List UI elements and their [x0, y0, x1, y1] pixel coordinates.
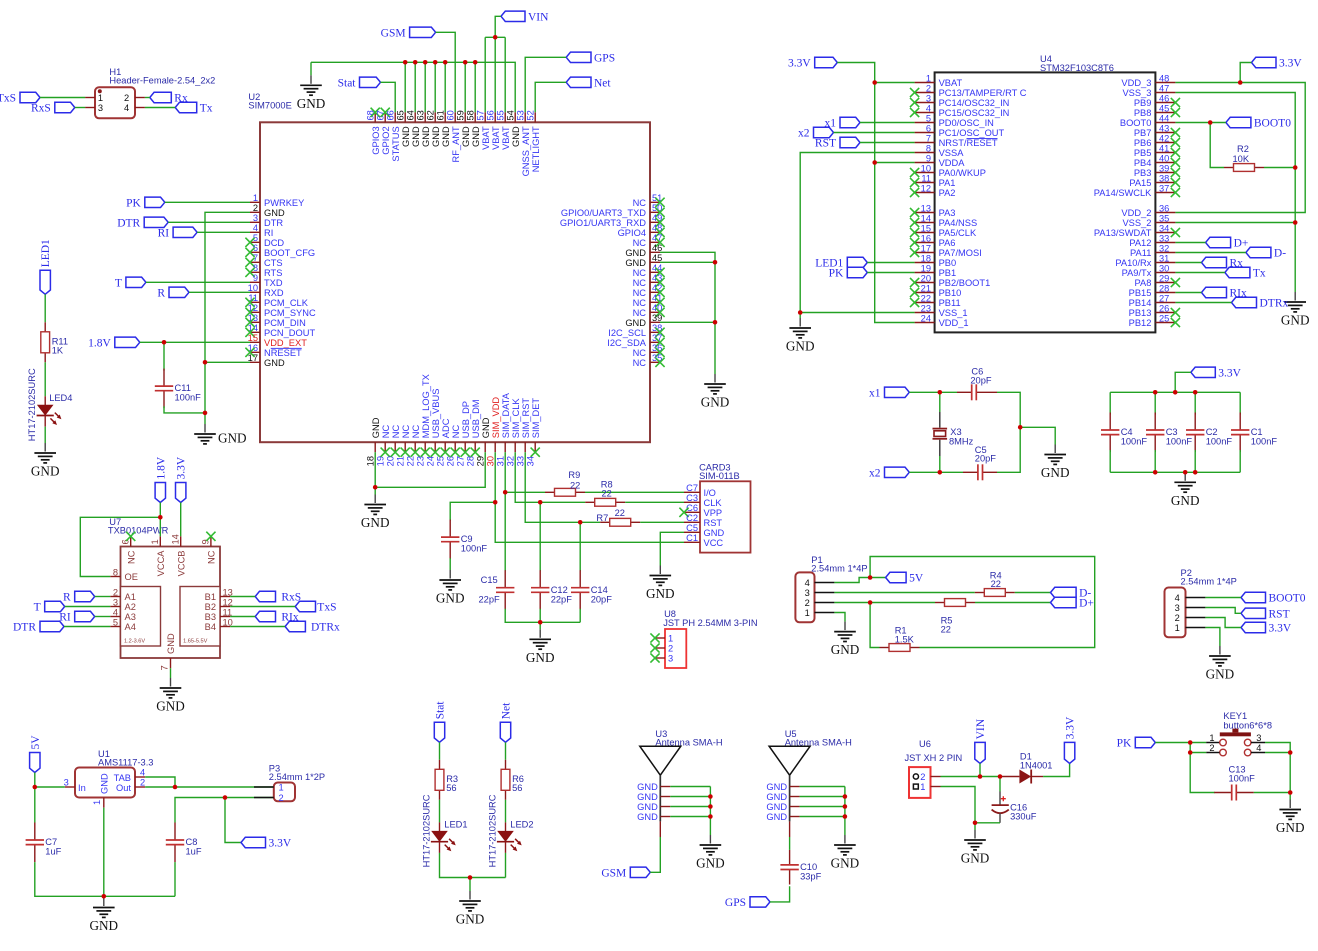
svg-text:D+: D+ — [1079, 598, 1094, 610]
U4 pin 41 PB5 — [1134, 143, 1180, 158]
net flag LED1 — [815, 257, 867, 269]
junction — [1153, 390, 1158, 395]
U4 pin 28 PB15 — [1129, 283, 1176, 298]
svg-text:VDD_2: VDD_2 — [1121, 208, 1151, 218]
wire — [1190, 743, 1215, 793]
svg-text:PA2: PA2 — [939, 188, 956, 198]
svg-text:RST: RST — [815, 138, 836, 150]
wire — [585, 491, 684, 493]
svg-text:LED4: LED4 — [49, 393, 72, 403]
net flag 3.3V — [1252, 57, 1303, 69]
wire — [44, 427, 46, 443]
U4 pin 21 PB10 — [910, 283, 961, 298]
U2 pin 36 NC — [633, 343, 665, 358]
capacitor C3 — [1146, 413, 1192, 453]
U4 pin 7 NRST/RESET — [915, 133, 998, 148]
wire — [230, 606, 295, 608]
svg-text:GND: GND — [90, 918, 119, 933]
svg-text:C1: C1 — [1251, 427, 1263, 437]
svg-text:2: 2 — [253, 203, 258, 213]
svg-text:SIM_DATA: SIM_DATA — [501, 392, 511, 438]
svg-text:SIM_DET: SIM_DET — [531, 398, 541, 439]
svg-text:PA11: PA11 — [1130, 248, 1151, 258]
svg-text:DTR: DTR — [264, 218, 283, 228]
junction — [463, 60, 468, 65]
svg-text:BOOT0: BOOT0 — [1269, 593, 1306, 605]
U2 pin 31 SIM_DATA — [496, 392, 511, 466]
svg-text:D-: D- — [1274, 248, 1286, 260]
U4 pin 15 PA5/CLK — [910, 223, 977, 238]
svg-text:GND: GND — [264, 208, 285, 218]
resistor R6 — [501, 760, 524, 800]
U2 pin 48 GPIO4 — [618, 223, 665, 238]
svg-text:3: 3 — [926, 93, 931, 103]
svg-text:22: 22 — [941, 624, 951, 634]
wire — [180, 503, 182, 537]
svg-text:RST: RST — [704, 518, 723, 528]
net flag T — [115, 277, 146, 289]
svg-text:PA0/WKUP: PA0/WKUP — [939, 168, 986, 178]
wire — [941, 776, 1001, 778]
wire — [164, 406, 205, 413]
net flag D- — [1051, 587, 1092, 599]
svg-text:PB4: PB4 — [1134, 158, 1152, 168]
junction — [538, 620, 543, 625]
svg-text:DCD: DCD — [264, 238, 284, 248]
svg-text:x1: x1 — [869, 387, 881, 399]
svg-text:21: 21 — [396, 456, 406, 466]
junction — [868, 575, 873, 580]
wire — [485, 36, 505, 38]
wire — [103, 808, 105, 897]
IC U1 AMS1117-3.3 body — [75, 749, 153, 798]
wire — [40, 97, 85, 99]
H1 pin 4 — [124, 103, 145, 113]
resistor R11 — [41, 322, 68, 362]
svg-text:GND: GND — [511, 126, 521, 147]
svg-text:GND: GND — [1281, 313, 1310, 328]
wire — [979, 763, 981, 776]
svg-text:1: 1 — [279, 783, 284, 793]
wire — [230, 616, 255, 618]
net flag RST — [1241, 608, 1290, 620]
wire — [844, 787, 846, 836]
junction — [973, 821, 978, 826]
wire — [800, 796, 845, 798]
svg-text:VCCA: VCCA — [156, 550, 166, 577]
svg-text:62: 62 — [426, 110, 436, 120]
svg-text:A3: A3 — [125, 612, 136, 622]
svg-text:22: 22 — [921, 293, 931, 303]
U4 pin 20 PB2/BOOT1 — [910, 273, 990, 288]
U2 pin 50 GPIO0/UART3_TXD — [561, 203, 665, 218]
wire — [1175, 262, 1201, 264]
junction — [433, 60, 438, 65]
svg-text:63: 63 — [416, 110, 426, 120]
wire — [625, 501, 684, 503]
svg-text:B1: B1 — [205, 592, 216, 602]
svg-text:28: 28 — [1159, 283, 1169, 293]
svg-text:PA14/SWCLK: PA14/SWCLK — [1094, 188, 1152, 198]
svg-text:GND: GND — [461, 126, 471, 147]
P2 pin 3 — [1175, 603, 1206, 613]
net flag 3.3V — [1191, 367, 1242, 379]
svg-text:2: 2 — [805, 598, 810, 608]
net flag PK — [829, 267, 868, 279]
junction — [158, 515, 163, 520]
svg-text:GND: GND — [156, 699, 185, 714]
P1 pin 1 — [805, 608, 835, 618]
svg-text:C2: C2 — [1206, 427, 1218, 437]
svg-text:PA9/Tx: PA9/Tx — [1122, 268, 1152, 278]
svg-text:VBAT: VBAT — [491, 126, 501, 150]
wire — [1190, 752, 1206, 754]
net flag DTR — [13, 621, 64, 633]
wire — [1210, 123, 1224, 168]
junction — [1293, 165, 1298, 170]
wire — [484, 37, 486, 112]
junction — [373, 485, 378, 490]
U2 pin 18 GND — [366, 417, 381, 466]
junction — [493, 500, 498, 505]
svg-text:OE: OE — [125, 572, 138, 582]
wire — [1110, 471, 1240, 473]
svg-text:PC13/TAMPER/RT C: PC13/TAMPER/RT C — [939, 88, 1027, 98]
wire — [834, 132, 915, 134]
U8 pin 3 — [650, 653, 673, 663]
svg-text:D+: D+ — [1234, 238, 1249, 250]
junction — [538, 500, 543, 505]
svg-text:C5: C5 — [686, 523, 698, 533]
resistor R9 — [545, 470, 585, 496]
wire — [444, 62, 446, 112]
svg-text:8: 8 — [926, 143, 931, 153]
U5 GND pin 2 — [766, 792, 799, 802]
svg-text:T: T — [115, 277, 122, 289]
capacitor C10 — [780, 850, 821, 885]
svg-text:DTR: DTR — [13, 622, 36, 634]
svg-text:3: 3 — [253, 213, 258, 223]
net flag DTRx — [285, 621, 340, 633]
U2 pin 53 GNSS_ANT — [516, 110, 531, 176]
wire — [999, 777, 1001, 792]
net flag 3.3V — [1241, 622, 1292, 634]
wire — [1265, 752, 1290, 754]
svg-text:GND: GND — [625, 248, 646, 258]
U4 pin 48 VDD_3 — [1121, 73, 1175, 88]
svg-text:1: 1 — [98, 93, 103, 103]
wire — [1175, 252, 1246, 254]
svg-text:R7: R7 — [596, 513, 608, 523]
U2 pin 64 GND — [406, 110, 421, 147]
svg-text:GND: GND — [646, 586, 675, 601]
svg-text:TxS: TxS — [0, 93, 16, 105]
svg-text:VSS_3: VSS_3 — [1122, 88, 1151, 98]
svg-text:3.3V: 3.3V — [1065, 716, 1077, 739]
ground (U2 pin18) — [361, 495, 390, 531]
U2 pin 28 USB_DM — [466, 399, 481, 466]
svg-text:GND: GND — [218, 431, 247, 446]
svg-text:20pF: 20pF — [970, 375, 992, 385]
ground (P2) — [1206, 646, 1235, 682]
svg-text:PCM_DIN: PCM_DIN — [264, 318, 306, 328]
junction — [413, 60, 418, 65]
svg-text:20: 20 — [386, 456, 396, 466]
junction — [708, 804, 713, 809]
svg-text:GND: GND — [637, 782, 658, 792]
net flag LED1 — [40, 239, 52, 294]
svg-text:GSM: GSM — [381, 27, 406, 39]
wire — [800, 312, 914, 314]
wire — [539, 622, 541, 629]
svg-text:PB3: PB3 — [1134, 168, 1152, 178]
wire — [159, 503, 161, 537]
U2 pin 2 GND — [250, 203, 285, 218]
svg-text:56: 56 — [512, 783, 522, 793]
U2 pin 47 NC — [633, 233, 665, 248]
U7 pin 5 A4 — [110, 617, 136, 632]
U7 pin 12 B2 — [205, 597, 233, 612]
svg-text:1.2-3.6V: 1.2-3.6V — [124, 639, 145, 645]
svg-text:PB9: PB9 — [1134, 98, 1152, 108]
svg-text:PA4/NSS: PA4/NSS — [939, 218, 978, 228]
junction — [938, 470, 943, 475]
U2 pin 51 NC — [633, 193, 665, 208]
wire — [168, 221, 250, 223]
svg-text:1: 1 — [1175, 623, 1180, 633]
svg-text:PB2/BOOT1: PB2/BOOT1 — [939, 278, 991, 288]
svg-text:59: 59 — [456, 110, 466, 120]
svg-text:PB11: PB11 — [939, 298, 961, 308]
net flag VIN — [501, 11, 549, 23]
svg-text:PB0: PB0 — [939, 258, 957, 268]
connector U8 body — [663, 609, 757, 668]
wire — [939, 392, 941, 412]
U2 pin 20 NC — [386, 424, 401, 466]
net flag RST — [815, 137, 860, 149]
svg-text:5V: 5V — [30, 735, 42, 750]
U7 pin 7 GND — [160, 633, 177, 670]
svg-text:22pF: 22pF — [478, 594, 500, 604]
net flag 5V — [886, 572, 924, 584]
svg-text:33: 33 — [1159, 233, 1169, 243]
junction — [978, 774, 983, 779]
wire — [464, 62, 466, 112]
P2 pin 4 — [1175, 593, 1206, 603]
U5 GND pin 4 — [766, 812, 799, 822]
net flag BOOT0 — [1241, 592, 1306, 604]
svg-text:65: 65 — [396, 110, 406, 120]
net flag GPS — [566, 52, 615, 64]
svg-text:PA6: PA6 — [939, 238, 956, 248]
svg-text:LED1: LED1 — [40, 239, 52, 267]
wire — [1154, 392, 1156, 414]
svg-text:55: 55 — [496, 110, 506, 120]
U7 pin 3 A2 — [110, 597, 136, 612]
junction — [162, 340, 167, 345]
svg-text:USB_DP: USB_DP — [461, 401, 471, 438]
wire — [197, 231, 250, 233]
svg-text:PA15: PA15 — [1129, 178, 1151, 188]
resistor R5 — [935, 599, 975, 635]
svg-text:PA12: PA12 — [1129, 238, 1151, 248]
wire — [170, 668, 172, 678]
net flag PK — [126, 197, 165, 209]
svg-text:3: 3 — [805, 588, 810, 598]
svg-text:PCM_CLK: PCM_CLK — [264, 298, 309, 308]
U4 pin 18 PB0 — [915, 253, 957, 268]
net flag 1.8V — [155, 456, 167, 502]
U2 pin 46 GND — [625, 243, 662, 258]
junction — [468, 875, 473, 880]
U4 pin 46 PB9 — [1134, 93, 1180, 108]
svg-text:HT17-2102SURC: HT17-2102SURC — [422, 794, 432, 867]
CARD3 pin C6 VPP — [679, 503, 722, 518]
net flag R — [157, 287, 189, 299]
svg-text:LED1: LED1 — [444, 819, 467, 829]
junction — [1288, 750, 1293, 755]
svg-text:1: 1 — [805, 608, 810, 618]
U4 pin 22 PB11 — [910, 293, 961, 308]
U3 GND pin 1 — [637, 782, 670, 792]
wire — [800, 806, 845, 808]
svg-text:TAB: TAB — [114, 773, 131, 783]
svg-text:31: 31 — [496, 456, 506, 466]
svg-text:20: 20 — [921, 273, 931, 283]
U4 pin 31 PA10/Rx — [1115, 253, 1175, 268]
svg-text:1: 1 — [1209, 733, 1214, 743]
resistor R2 — [1224, 144, 1264, 171]
svg-text:Antenna SMA-H: Antenna SMA-H — [785, 737, 852, 747]
U4 pin 38 PA15 — [1129, 173, 1180, 188]
wire — [650, 837, 660, 872]
U3 GND pin 4 — [637, 812, 670, 822]
junction — [1183, 470, 1188, 475]
svg-text:2: 2 — [1209, 743, 1214, 753]
net flag RxS — [31, 102, 75, 114]
net flag Net — [500, 702, 512, 742]
svg-text:PB6: PB6 — [1134, 138, 1152, 148]
svg-text:9: 9 — [253, 273, 258, 283]
U2 pin 44 NC — [633, 263, 665, 278]
wire — [579, 522, 581, 571]
svg-text:NC: NC — [633, 198, 647, 208]
wire — [789, 837, 791, 850]
wire — [1043, 763, 1070, 776]
wire — [1175, 272, 1225, 274]
junction — [938, 390, 943, 395]
svg-text:2: 2 — [1175, 613, 1180, 623]
svg-text:NRST/RESET: NRST/RESET — [939, 138, 998, 148]
U2 pin 30 SIM_VDD — [486, 397, 501, 467]
svg-text:GND: GND — [704, 528, 725, 538]
net flag GSM — [381, 27, 436, 39]
U4 pin 30 PA9/Tx — [1122, 263, 1176, 278]
resistor R4 — [975, 570, 1015, 596]
svg-text:31: 31 — [1159, 253, 1169, 263]
svg-text:VPP: VPP — [704, 508, 723, 518]
wire — [975, 602, 1051, 604]
capacitor C8 — [166, 823, 202, 863]
wire — [225, 798, 241, 843]
wire — [440, 853, 506, 878]
connector P2 body — [1165, 568, 1237, 637]
wire — [424, 62, 426, 112]
wire — [1264, 167, 1295, 169]
svg-text:SIM_RST: SIM_RST — [521, 398, 531, 439]
wire — [834, 578, 885, 583]
wire — [909, 471, 940, 473]
svg-text:button6*6*8: button6*6*8 — [1223, 720, 1272, 730]
ground (U3) — [696, 835, 725, 871]
wire — [1175, 302, 1231, 304]
svg-text:A2: A2 — [125, 602, 136, 612]
svg-text:RTS: RTS — [264, 268, 282, 278]
wire — [867, 272, 914, 274]
svg-text:Stat: Stat — [338, 77, 357, 89]
U2 pin 25 ADC — [436, 418, 451, 466]
svg-text:56: 56 — [446, 783, 456, 793]
wire — [1239, 392, 1241, 414]
svg-text:JST XH 2 PIN: JST XH 2 PIN — [905, 753, 963, 763]
U2 pin 49 GPIO1/UART3_RXD — [560, 213, 665, 228]
svg-text:PC15/OSC32_IN: PC15/OSC32_IN — [939, 108, 1010, 118]
wire — [205, 212, 250, 424]
svg-text:58: 58 — [466, 110, 476, 120]
svg-text:GND: GND — [371, 417, 381, 438]
svg-text:PK: PK — [829, 268, 844, 280]
svg-text:Stat: Stat — [435, 701, 447, 720]
capacitor C4 — [1101, 413, 1147, 453]
svg-text:RI: RI — [264, 228, 273, 238]
junction — [578, 520, 583, 525]
svg-text:1.5K: 1.5K — [895, 634, 915, 644]
wire — [525, 452, 600, 522]
wire — [860, 122, 915, 124]
U2 pin 39 GND — [625, 313, 662, 328]
capacitor C13 — [1214, 765, 1255, 801]
ground (CARD3) — [646, 566, 675, 602]
junction — [1188, 750, 1193, 755]
svg-text:PK: PK — [1117, 738, 1132, 750]
svg-text:VDDA: VDDA — [939, 158, 966, 168]
svg-text:4: 4 — [1175, 593, 1180, 603]
svg-text:PB7: PB7 — [1134, 128, 1152, 138]
svg-text:16: 16 — [921, 233, 931, 243]
U2 pin 3 DTR — [250, 213, 283, 228]
junction — [33, 785, 38, 790]
svg-text:25: 25 — [1159, 313, 1169, 323]
svg-text:SIM_VDD: SIM_VDD — [491, 397, 501, 439]
wire — [941, 787, 976, 831]
U2 pin 68 GPIO3 — [366, 108, 381, 155]
connector P3 body — [269, 763, 325, 801]
net flag x2 — [798, 127, 834, 139]
svg-text:66: 66 — [386, 110, 396, 120]
net flag TxS — [0, 92, 40, 104]
svg-text:NC: NC — [633, 348, 647, 358]
svg-text:VCCB: VCCB — [176, 551, 186, 577]
svg-text:DTRx: DTRx — [311, 622, 340, 634]
wire — [504, 452, 506, 492]
svg-text:1uF: 1uF — [45, 847, 61, 857]
ground (U4 right) — [1281, 292, 1310, 328]
wire — [174, 862, 176, 896]
wire — [375, 452, 485, 487]
P2 pin 2 — [1175, 613, 1206, 623]
wire — [834, 592, 974, 594]
wire — [95, 616, 111, 618]
